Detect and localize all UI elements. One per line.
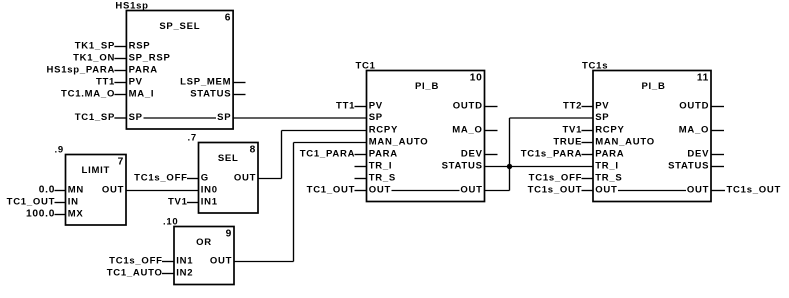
svg-text:G: G [201, 173, 209, 184]
svg-text:OUT: OUT [210, 256, 232, 267]
svg-text:MAN_AUTO: MAN_AUTO [595, 137, 655, 148]
svg-text:IN1: IN1 [176, 256, 193, 267]
svg-text:OUT: OUT [234, 173, 256, 184]
svg-text:TR_S: TR_S [369, 173, 396, 184]
svg-text:HS1sp_PARA: HS1sp_PARA [47, 65, 116, 76]
svg-text:OUT: OUT [460, 185, 482, 196]
svg-text:MA_O: MA_O [452, 125, 482, 136]
svg-text:LIMIT: LIMIT [82, 165, 111, 176]
svg-text:TR_I: TR_I [369, 161, 393, 172]
svg-text:RSP: RSP [129, 41, 151, 52]
svg-text:TC1s_OFF: TC1s_OFF [134, 173, 188, 184]
svg-text:TR_S: TR_S [595, 173, 622, 184]
svg-text:STATUS: STATUS [668, 161, 709, 172]
svg-text:TC1s_OUT: TC1s_OUT [727, 185, 782, 196]
svg-text:TR_I: TR_I [595, 161, 619, 172]
svg-text:TC1s_PARA: TC1s_PARA [521, 149, 582, 160]
svg-text:DEV: DEV [461, 149, 483, 160]
svg-text:TC1_PARA: TC1_PARA [300, 149, 355, 160]
svg-text:TC1s_OUT: TC1s_OUT [528, 185, 583, 196]
svg-text:TT1: TT1 [96, 77, 115, 88]
svg-text:TC1s_OFF: TC1s_OFF [529, 173, 583, 184]
svg-text:OUT: OUT [687, 185, 709, 196]
svg-text:OUT: OUT [102, 185, 124, 196]
svg-text:MAN_AUTO: MAN_AUTO [369, 137, 429, 148]
svg-text:RCPY: RCPY [369, 125, 398, 136]
svg-text:SEL: SEL [218, 153, 239, 164]
svg-text:PI_B: PI_B [415, 81, 439, 92]
svg-text:TT2: TT2 [563, 101, 582, 112]
svg-text:TK1_ON: TK1_ON [73, 53, 115, 64]
svg-text:PARA: PARA [595, 149, 624, 160]
svg-text:IN0: IN0 [201, 185, 218, 196]
svg-text:6: 6 [225, 13, 231, 24]
svg-text:RCPY: RCPY [595, 125, 624, 136]
svg-text:DEV: DEV [687, 149, 709, 160]
svg-text:IN1: IN1 [201, 197, 218, 208]
svg-text:TC1.MA_O: TC1.MA_O [61, 89, 115, 100]
svg-text:MX: MX [68, 209, 84, 220]
svg-text:TC1_OUT: TC1_OUT [7, 197, 56, 208]
svg-text:PV: PV [369, 101, 383, 112]
svg-text:SP: SP [217, 112, 231, 123]
svg-text:LSP_MEM: LSP_MEM [180, 77, 231, 88]
svg-text:.7: .7 [188, 132, 197, 143]
svg-text:TC1s_OFF: TC1s_OFF [109, 256, 163, 267]
svg-text:TK1_SP: TK1_SP [75, 41, 115, 52]
svg-text:TC1_OUT: TC1_OUT [307, 185, 356, 196]
svg-text:TC1: TC1 [356, 60, 376, 71]
svg-text:.9: .9 [55, 144, 64, 155]
svg-text:OR: OR [196, 237, 212, 248]
svg-text:PV: PV [129, 77, 143, 88]
svg-text:TC1_AUTO: TC1_AUTO [107, 268, 163, 279]
svg-text:SP: SP [129, 112, 143, 123]
svg-text:OUT: OUT [595, 185, 617, 196]
svg-text:SP_SEL: SP_SEL [159, 21, 200, 32]
svg-text:TC1_SP: TC1_SP [75, 112, 115, 123]
svg-text:TT1: TT1 [336, 101, 355, 112]
svg-text:PARA: PARA [369, 149, 398, 160]
svg-text:PV: PV [595, 101, 609, 112]
svg-text:SP: SP [369, 112, 383, 123]
svg-text:MN: MN [68, 185, 84, 196]
svg-text:STATUS: STATUS [442, 161, 483, 172]
svg-text:TRUE: TRUE [553, 137, 582, 148]
svg-text:TC1s: TC1s [582, 60, 608, 71]
svg-text:PI_B: PI_B [641, 81, 665, 92]
svg-text:MA_O: MA_O [679, 125, 709, 136]
svg-text:0.0: 0.0 [39, 185, 55, 196]
svg-text:HS1sp: HS1sp [115, 0, 148, 11]
svg-text:OUTD: OUTD [453, 101, 483, 112]
svg-text:OUTD: OUTD [679, 101, 709, 112]
svg-text:IN2: IN2 [176, 268, 193, 279]
svg-text:7: 7 [118, 157, 124, 168]
svg-text:TV1: TV1 [168, 197, 188, 208]
svg-text:10: 10 [470, 73, 483, 84]
svg-text:.10: .10 [163, 216, 178, 227]
svg-text:11: 11 [697, 73, 709, 84]
svg-text:STATUS: STATUS [190, 89, 231, 100]
svg-text:SP_RSP: SP_RSP [129, 53, 171, 64]
svg-text:8: 8 [250, 145, 256, 156]
svg-text:IN: IN [68, 197, 79, 208]
svg-text:TV1: TV1 [563, 125, 583, 136]
svg-text:100.0: 100.0 [26, 209, 55, 220]
svg-text:SP: SP [595, 112, 609, 123]
svg-text:MA_I: MA_I [129, 89, 155, 100]
svg-text:OUT: OUT [369, 185, 391, 196]
svg-text:PARA: PARA [129, 65, 158, 76]
svg-text:9: 9 [226, 229, 232, 240]
